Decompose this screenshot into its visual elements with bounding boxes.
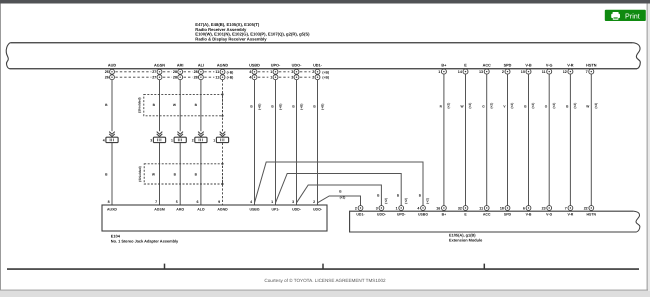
svg-text:(+2): (+2): [510, 103, 514, 109]
svg-text:12: 12: [563, 70, 567, 74]
svg-text:(+2): (+2): [426, 198, 430, 204]
svg-text:(+2): (+2): [384, 198, 388, 204]
svg-text:UP1-: UP1-: [272, 208, 281, 212]
svg-text:(Shielded): (Shielded): [138, 166, 142, 181]
svg-text:4: 4: [417, 206, 419, 210]
svg-text:26: 26: [105, 76, 109, 80]
svg-text:UPO-: UPO-: [397, 212, 407, 216]
terminal ARI on radio band: [173, 63, 184, 79]
wire color label on B+: [440, 103, 451, 109]
wire AGND vertical: [222, 80, 224, 205]
svg-text:AGND: AGND: [217, 63, 228, 67]
jack adapter pin 7 AGSM: [154, 200, 165, 212]
svg-text:28: 28: [194, 70, 198, 74]
svg-text:V-B: V-B: [525, 63, 532, 67]
svg-text:(+2): (+2): [447, 103, 451, 109]
svg-text:2: 2: [312, 70, 314, 74]
svg-text:(+2): (+2): [489, 103, 493, 109]
svg-text:V-G: V-G: [546, 63, 553, 67]
svg-text:3: 3: [376, 206, 378, 210]
svg-text:Radio & Display Receiver Assem: Radio & Display Receiver Assembly: [195, 36, 267, 41]
svg-text:28: 28: [194, 76, 198, 80]
junction connector on ARI wire: [171, 132, 186, 143]
wire AUD vertical: [111, 80, 113, 205]
wire ACC vertical: [486, 74, 488, 205]
terminal AGSN on radio band: [152, 63, 165, 79]
svg-text:27: 27: [152, 70, 156, 74]
svg-text:ARO: ARO: [176, 208, 184, 212]
svg-text:(+B): (+B): [320, 104, 324, 110]
extension module terminal UPO-: [396, 206, 407, 217]
variant note (+B) after UD1-: [322, 70, 329, 79]
wire color label on extension routing (UD1-): [339, 190, 345, 200]
terminal AGND on radio band: [215, 63, 228, 79]
svg-text:UDD-: UDD-: [292, 208, 302, 212]
svg-text:UDO-: UDO-: [313, 208, 323, 212]
svg-text:11: 11: [215, 76, 219, 80]
wire color label on UDO- stub: [377, 194, 388, 204]
wire UPO- to extension module (diagonal + horizontal + stub): [276, 174, 402, 206]
svg-text:32: 32: [458, 206, 462, 210]
wire UDO- to extension module (diagonal + horizontal + stub): [297, 185, 382, 205]
wire V-B vertical: [528, 74, 530, 205]
svg-text:ACC: ACC: [483, 63, 491, 67]
svg-text:SPD: SPD: [504, 63, 512, 67]
svg-text:3: 3: [291, 70, 293, 74]
wire HSTN vertical: [590, 74, 592, 205]
jack adapter pin 8 AUXD: [107, 200, 117, 212]
No.1 stereo jack adapter assembly box E104: [102, 205, 327, 243]
svg-text:2: 2: [313, 200, 315, 204]
svg-text:UD1-: UD1-: [356, 212, 365, 216]
svg-text:1: 1: [270, 70, 272, 74]
wire color label on V-R: [566, 103, 577, 109]
svg-text:(+B): (+B): [299, 104, 303, 110]
wire USBD vertical: [254, 80, 256, 205]
svg-text:AGND: AGND: [217, 208, 228, 212]
svg-text:USBD: USBD: [249, 63, 260, 67]
window top bar: [0, 0, 650, 4]
svg-text:27: 27: [152, 76, 156, 80]
svg-text:5: 5: [176, 200, 178, 204]
wire V-R vertical: [569, 74, 571, 205]
svg-text:B+: B+: [441, 63, 447, 67]
svg-text:SPD: SPD: [504, 212, 512, 216]
svg-text:1: 1: [270, 76, 272, 80]
extension module terminal ACC: [479, 206, 491, 217]
svg-text:7: 7: [565, 206, 567, 210]
print button: [605, 10, 646, 21]
svg-text:ALI: ALI: [198, 63, 204, 67]
svg-text:W: W: [586, 105, 589, 109]
svg-text:B+: B+: [442, 212, 447, 216]
svg-text:V-R: V-R: [567, 212, 573, 216]
svg-text:(+2): (+2): [531, 103, 535, 109]
terminal E on radio band: [458, 63, 468, 74]
extension module terminal HSTN: [584, 206, 597, 217]
extension module terminal E: [458, 206, 468, 217]
svg-text:26: 26: [105, 70, 109, 74]
terminal USBD on radio band: [249, 63, 260, 79]
svg-text:23: 23: [542, 206, 546, 210]
junction connector on ALI wire: [192, 132, 207, 143]
connector ID text block: [195, 22, 310, 41]
svg-text:2: 2: [502, 70, 504, 74]
dashed link UPO- to UDO-: [279, 72, 289, 77]
svg-text:Extension Module: Extension Module: [449, 237, 483, 242]
dashed link USBD to UPO-: [258, 72, 268, 77]
svg-text:HSTN: HSTN: [586, 63, 597, 67]
svg-text:11: 11: [215, 70, 219, 74]
svg-text:2: 2: [355, 206, 357, 210]
svg-text:8: 8: [108, 200, 110, 204]
svg-text:(+B): (+B): [278, 104, 282, 110]
terminal SPD on radio band: [502, 63, 512, 74]
svg-text:(+2): (+2): [468, 103, 472, 109]
wire color label on ACC: [482, 103, 493, 109]
jack adapter pin 2 UDO-: [313, 200, 323, 212]
svg-text:ACC: ACC: [483, 212, 491, 216]
svg-text:7: 7: [586, 70, 588, 74]
svg-text:Print: Print: [625, 11, 640, 20]
svg-text:18: 18: [500, 206, 504, 210]
junction connector on AGND wire: [213, 132, 228, 143]
wire UPO- vertical: [275, 80, 277, 205]
wire USBD to extension module (diagonal + horizontal + stub): [255, 162, 424, 205]
wire color label on UPO- stub: [397, 194, 408, 204]
dashed link AUD to AGSN: [115, 72, 151, 77]
svg-text:V-B: V-B: [526, 212, 532, 216]
terminal AUD on radio band: [105, 63, 117, 79]
jack adapter pin 3 UDD-: [292, 200, 302, 212]
jack adapter pin 4 USBG: [249, 200, 259, 212]
wire color label on E: [460, 103, 472, 109]
junction connector on AUD wire: [103, 132, 118, 143]
wire color label on USBD: [250, 104, 261, 110]
svg-text:6: 6: [197, 200, 199, 204]
shielded cable box (lower): [138, 163, 224, 185]
svg-text:USBG: USBG: [249, 208, 259, 212]
extension module terminal SPD: [500, 206, 512, 217]
svg-text:UDO-: UDO-: [377, 212, 387, 216]
wire color label on V-G: [545, 103, 556, 109]
svg-text:ALO: ALO: [197, 208, 205, 212]
terminal V-G on radio band: [542, 63, 553, 74]
svg-text:(+B): (+B): [227, 76, 234, 80]
svg-text:28: 28: [173, 70, 177, 74]
wire color label on USBG stub: [419, 194, 430, 204]
terminal ACC on radio band: [479, 63, 491, 74]
shielded cable box (upper): [138, 93, 224, 117]
svg-text:6: 6: [523, 206, 525, 210]
svg-text:11: 11: [479, 206, 483, 210]
terminal UDO- on radio band: [291, 63, 302, 79]
svg-text:2: 2: [192, 138, 194, 142]
terminal UD1- on radio band: [312, 63, 322, 79]
svg-text:7: 7: [155, 200, 157, 204]
svg-text:1: 1: [171, 138, 173, 142]
wire color label on V-B: [524, 103, 535, 109]
variant note (+B) after AGND: [227, 70, 234, 79]
svg-text:AUXD: AUXD: [107, 208, 117, 212]
wire color label on UDO-: [292, 104, 303, 110]
wire E vertical: [465, 74, 467, 205]
window left border: [0, 4, 1, 291]
wire UD1- to extension module (diagonal + horizontal + stub): [318, 196, 361, 205]
jack adapter pin 9 AGND: [217, 200, 228, 212]
wire SPD vertical: [507, 74, 509, 205]
svg-text:(+B): (+B): [227, 70, 234, 74]
wire color labels (audio, upper): [105, 103, 198, 107]
extension module terminal USBG: [417, 206, 428, 217]
window bottom border and strip: [0, 290, 650, 297]
wire color label on UD1-: [313, 104, 324, 110]
terminal UPO- on radio band: [270, 63, 281, 79]
svg-text:E: E: [464, 63, 467, 67]
radio receiver assembly bus band: [6, 43, 640, 69]
svg-text:(+B): (+B): [322, 76, 329, 80]
jack adapter pin 6 ALO: [197, 200, 205, 212]
svg-text:Courtesy of © TOYOTA. LICENSE: Courtesy of © TOYOTA. LICENSE AGREEMENT …: [264, 278, 386, 283]
svg-text:1: 1: [271, 200, 273, 204]
wire B+ vertical: [443, 74, 445, 205]
dashed link AGSN to ARI: [163, 72, 172, 77]
svg-text:(+2): (+2): [404, 198, 408, 204]
terminal V-B on radio band: [521, 63, 532, 74]
svg-text:ARI: ARI: [177, 63, 184, 67]
bottom ruler line: [7, 264, 639, 270]
terminal B+ on radio band: [438, 63, 447, 74]
extension module terminal UDO-: [376, 206, 387, 217]
svg-text:(+2): (+2): [594, 103, 598, 109]
svg-text:UPO-: UPO-: [271, 63, 281, 67]
dashed link ARI to ALI: [184, 72, 193, 77]
terminal ALI on radio band: [194, 63, 204, 79]
svg-text:AUD: AUD: [108, 63, 116, 67]
dashed link ALI to AGND: [204, 72, 214, 77]
wire ARI vertical: [179, 80, 181, 205]
jack adapter pin 5 ARO: [176, 200, 185, 212]
svg-text:UD1-: UD1-: [313, 63, 323, 67]
svg-text:4: 4: [250, 200, 252, 204]
svg-text:1: 1: [438, 70, 440, 74]
wire color label on HSTN: [586, 103, 598, 109]
extension module terminal V-G: [542, 206, 553, 217]
svg-text:HSTN: HSTN: [587, 212, 597, 216]
wire color label on SPD: [503, 103, 514, 109]
svg-text:1: 1: [396, 206, 398, 210]
wire UDO- vertical: [296, 80, 298, 205]
wire ALI vertical: [200, 80, 202, 205]
terminal V-R on radio band: [563, 63, 574, 74]
svg-text:3: 3: [291, 76, 293, 80]
svg-text:13: 13: [479, 70, 483, 74]
extension module terminal V-B: [523, 206, 532, 217]
extension module terminal V-R: [565, 206, 574, 217]
svg-text:3: 3: [150, 138, 152, 142]
extension module box E105(A) g1(B): [350, 211, 640, 242]
wire V-G vertical: [548, 74, 550, 205]
svg-text:28: 28: [173, 76, 177, 80]
junction connector on AGSN wire: [150, 132, 165, 143]
wire AGSN vertical: [159, 80, 161, 205]
extension module terminal B+: [436, 206, 446, 217]
svg-text:3: 3: [292, 200, 294, 204]
wire color label on UPO-: [271, 104, 282, 110]
svg-text:2: 2: [312, 76, 314, 80]
svg-text:4: 4: [103, 138, 105, 142]
svg-text:16: 16: [436, 206, 440, 210]
svg-text:AGSN: AGSN: [154, 63, 165, 67]
svg-text:(Shielded): (Shielded): [138, 97, 142, 112]
svg-text:(+2): (+2): [573, 103, 577, 109]
svg-text:V-R: V-R: [567, 63, 574, 67]
svg-text:AGSM: AGSM: [154, 208, 165, 212]
extension module terminal UD1-: [355, 206, 366, 217]
jack adapter pin 1 UP1-: [271, 200, 280, 212]
svg-text:USBG: USBG: [418, 212, 428, 216]
svg-text:11: 11: [542, 70, 546, 74]
svg-text:22: 22: [584, 206, 588, 210]
svg-text:(+B): (+B): [322, 70, 329, 74]
svg-text:(+2): (+2): [552, 103, 556, 109]
dashed link UDO- to UD1-: [300, 72, 310, 77]
window right border: [647, 4, 650, 291]
svg-text:W: W: [460, 105, 463, 109]
svg-text:(+B): (+B): [257, 104, 261, 110]
svg-text:(+2): (+2): [340, 196, 346, 200]
svg-text:9: 9: [218, 200, 220, 204]
wire color labels (audio, lower): [105, 173, 198, 177]
wire UD1- vertical: [317, 80, 319, 205]
svg-text:10: 10: [521, 70, 525, 74]
svg-text:UDO-: UDO-: [292, 63, 302, 67]
svg-text:No. 1 Stereo Jack Adapter Asse: No. 1 Stereo Jack Adapter Assembly: [111, 238, 179, 243]
svg-text:1: 1: [213, 138, 215, 142]
terminal HSTN on radio band: [586, 63, 597, 74]
svg-text:V-G: V-G: [546, 212, 552, 216]
